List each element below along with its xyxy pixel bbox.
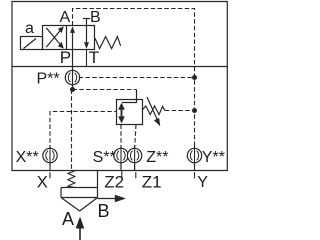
wire: dashed spring-chamber vent to Y column <box>165 110 195 112</box>
svg-text:S**: S** <box>93 149 116 166</box>
svg-text:T: T <box>89 48 99 67</box>
wire: Y line below circle <box>194 163 196 171</box>
main cartridge spring (insert spring) <box>68 171 75 187</box>
svg-text:B: B <box>98 201 110 221</box>
node: junction relief vent / Y column <box>192 108 197 113</box>
svg-text:P: P <box>60 48 71 67</box>
wire: dashed pilot branch to relief valve remote port <box>73 89 137 91</box>
solenoid actuator a (box with diagonal) <box>21 37 43 50</box>
svg-text:a: a <box>25 20 34 37</box>
wire: Y port stub <box>194 172 196 178</box>
wire: dashed P** gauge line to right drain column <box>79 77 195 79</box>
svg-text:Y**: Y** <box>202 149 225 166</box>
port B plug (blocked port) <box>83 19 90 26</box>
port A flow arrow (main stage) <box>76 217 85 240</box>
wire: dashed Z1 line from relief spring side down <box>135 125 136 171</box>
valve V1 return spring (right side) <box>95 37 121 49</box>
wire: X port stub <box>49 172 51 178</box>
svg-text:B: B <box>90 9 101 26</box>
svg-text:X**: X** <box>16 149 39 166</box>
svg-text:A: A <box>60 9 71 26</box>
measuring point MP-Z2 <box>114 146 128 166</box>
relief valve DB1 adjustment arrow <box>147 97 160 126</box>
relief valve DB1 adjustable spring <box>142 106 165 115</box>
measuring point MP-Z1 <box>127 146 141 166</box>
wire: pilot line A from valve to top dashed run and down right side <box>73 9 195 171</box>
wire: Z2 line below circle <box>120 163 122 171</box>
valve V1 centre divider <box>66 26 68 50</box>
port B flow arrow (main stage) <box>98 195 127 202</box>
pilot relief valve DB1 body <box>117 100 143 125</box>
directional valve V1 body (4/2 solenoid pilot valve) <box>43 26 95 50</box>
wire: Z1 port stub <box>135 172 137 178</box>
svg-text:P**: P** <box>37 71 60 88</box>
valve V1 parallel-flow arrows (right square, P->A up, B->T down) <box>70 26 89 50</box>
wire: dashed Z2 line from relief outlet down <box>120 125 122 171</box>
node: junction below P measuring point <box>70 87 75 92</box>
wire: T line down to block face <box>86 50 88 67</box>
relief valve DB1 double flow arrow <box>118 103 125 124</box>
svg-text:Y: Y <box>197 174 208 191</box>
main poppet seat V <box>61 198 98 212</box>
valve V1 crossed-flow arrows (left square) <box>46 26 64 48</box>
wire: P line from valve down through measuring point to node <box>72 50 74 90</box>
wire: dashed X pilot supply line with corner to relief inlet <box>50 112 117 150</box>
wire: Z2 port stub <box>121 171 123 179</box>
main cartridge sleeve box <box>61 171 98 198</box>
svg-text:Z2: Z2 <box>104 173 124 192</box>
svg-text:X: X <box>37 173 48 191</box>
measuring point MP-X <box>43 146 57 166</box>
wire: dashed pilot line down to main spring chamber <box>71 90 73 171</box>
node: junction P gauge line / Y column <box>192 75 197 80</box>
svg-text:Z**: Z** <box>146 149 168 166</box>
wire: Z1 line below circle <box>134 163 136 171</box>
svg-text:A: A <box>62 209 74 229</box>
block internal face line (top of main block section) <box>12 66 227 68</box>
wire: solid drop into relief valve top <box>122 90 137 103</box>
measuring point MP-Y <box>187 146 201 166</box>
svg-text:Z1: Z1 <box>142 173 162 192</box>
block boundary (control cover outline) <box>12 2 227 171</box>
measuring point MP-P (test connection on P) <box>65 70 79 84</box>
wire: X line below circle <box>49 163 51 171</box>
